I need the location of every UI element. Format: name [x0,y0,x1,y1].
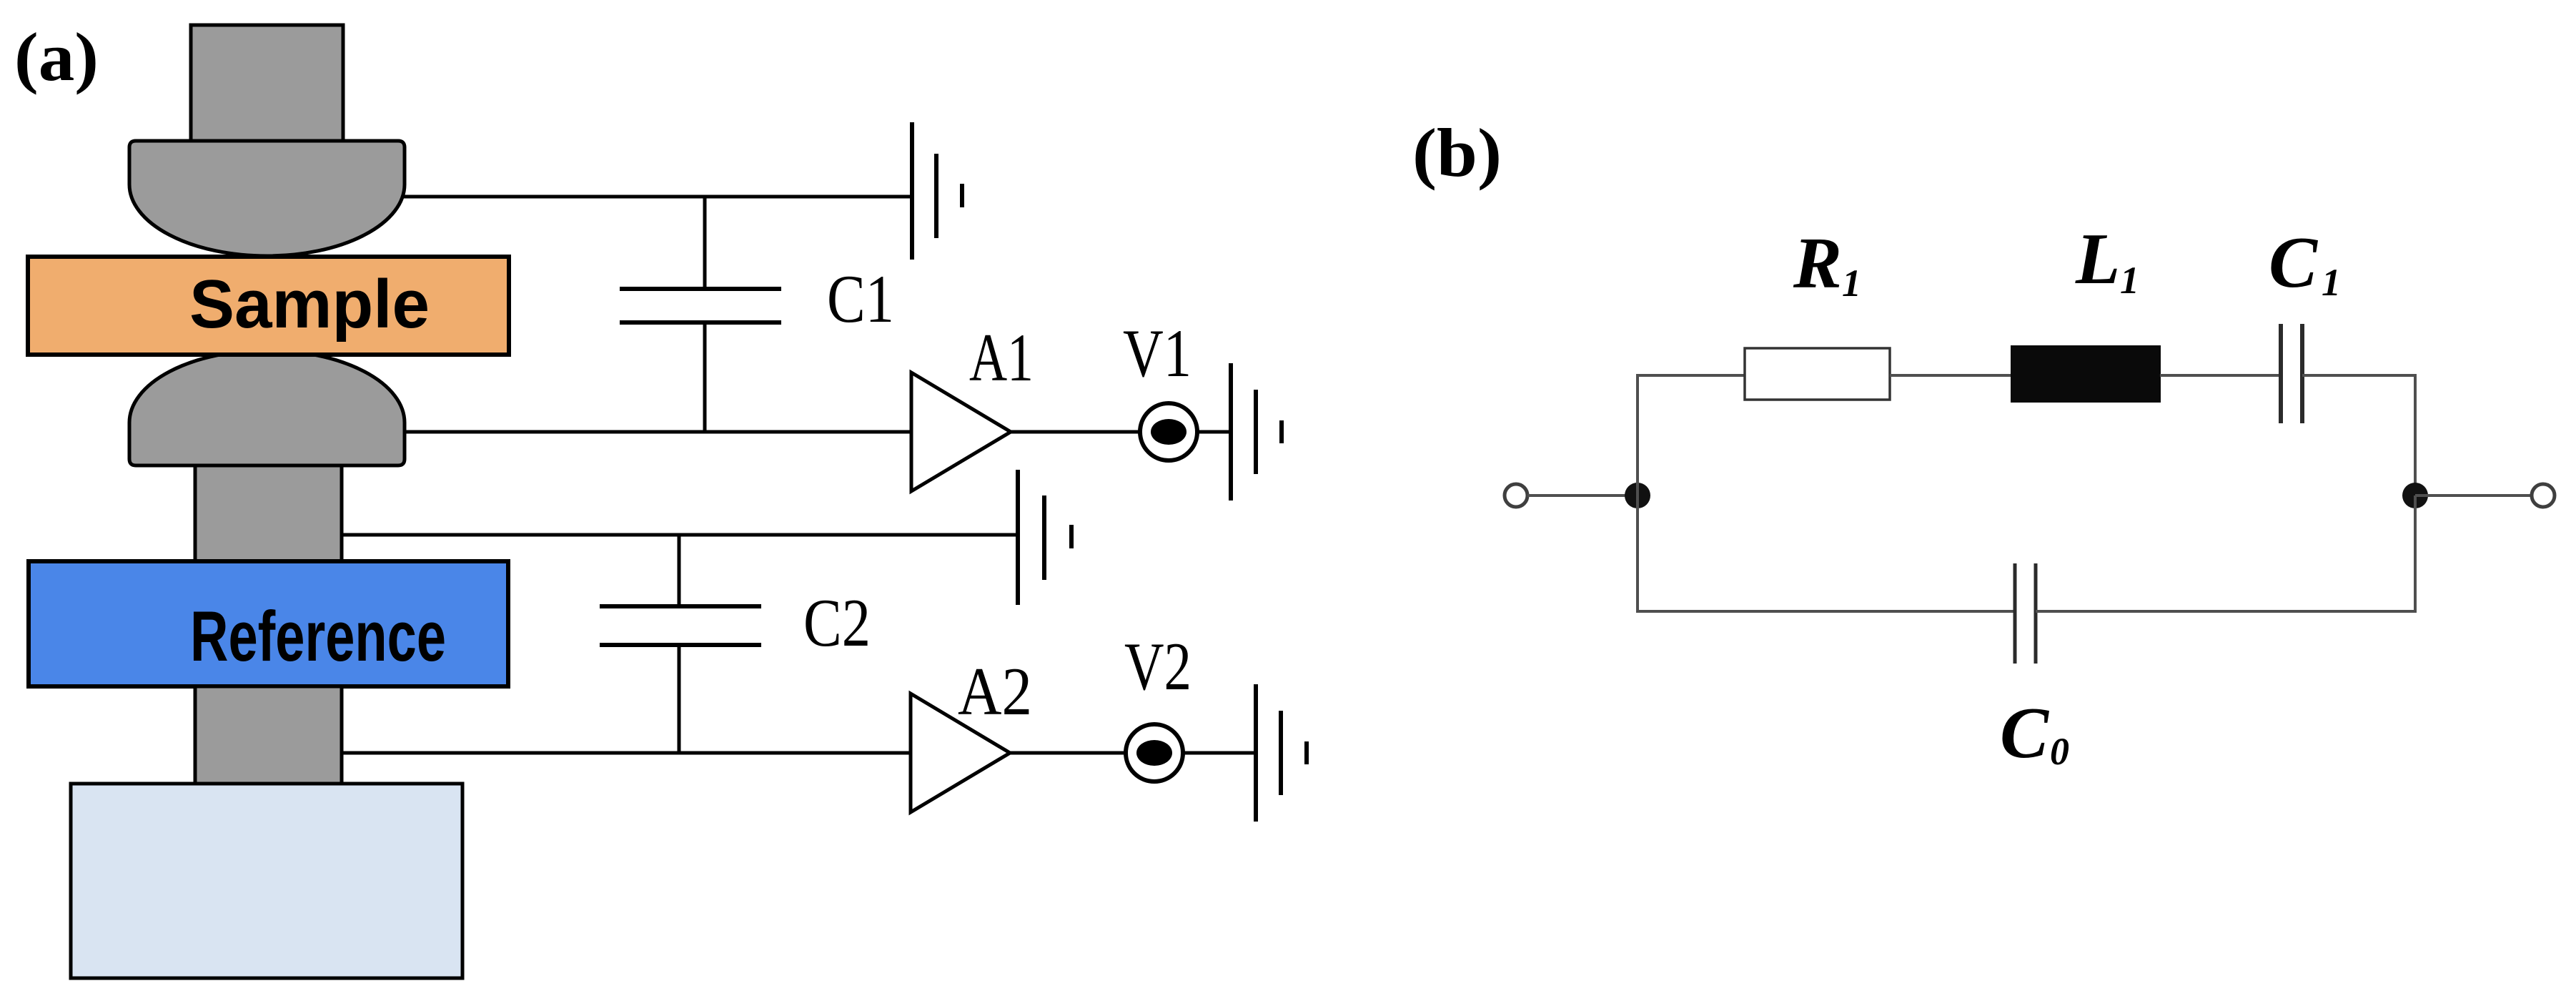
capacitor C2 [600,606,761,645]
label C2 [803,585,871,661]
wire junction down from upper wire to C1 top plate [703,197,707,287]
wire from lower electrode to amplifier A1 [395,430,911,434]
svg-text:1: 1 [1842,262,1861,305]
amplifier A1 [911,373,1011,491]
press lower anvil [129,350,405,465]
ground G1 [912,122,962,260]
svg-text:(b): (b) [1412,114,1502,191]
label A2 [958,654,1032,729]
terminal IN [1505,484,1527,507]
svg-text:Reference: Reference [190,596,446,676]
reference plate [29,561,508,686]
wire from V1 to ground G2 [1197,430,1231,434]
svg-text:1: 1 [2322,261,2341,304]
wire C1b to node N2 [2302,375,2415,495]
wire node N2 to OUT terminal [2415,494,2532,497]
wire bottom branch right [2036,495,2415,611]
wire from upper electrode to C1/ground [395,195,912,199]
base block [71,784,462,978]
amplifier A2 [911,694,1010,812]
svg-text:V2: V2 [1124,628,1192,704]
ground G4 [1256,684,1307,822]
wire from upper reference electrode to ground G3 [342,533,1018,537]
label A1 [969,320,1034,395]
wire L1 to C1b [2160,374,2281,377]
press upper stem [191,25,343,142]
inductor L1 [2011,346,2160,402]
label Sample [189,266,430,342]
wire from A1 output to voltmeter V1 [1011,430,1140,434]
label L1 [2075,219,2139,302]
ground G2 [1231,363,1282,501]
capacitor C1 (panel b) [2281,324,2302,423]
wire from V2 to ground G4 [1183,751,1256,755]
label C1 (panel b) [2269,222,2341,304]
svg-text:L: L [2075,219,2120,300]
capacitor C1 [620,289,781,322]
label R1 [1793,223,1861,305]
svg-text:R: R [1793,223,1842,304]
sample plate [28,257,509,355]
wire bottom branch left [1638,495,2015,611]
wire left branch vertical N1 [1638,375,1745,611]
svg-text:1: 1 [2120,259,2139,302]
svg-text:C: C [2000,693,2049,774]
svg-text:Sample: Sample [189,266,430,342]
svg-text:0: 0 [2050,730,2069,773]
label (b) [1412,114,1502,191]
label V2 [1124,628,1192,704]
svg-text:C: C [2269,222,2318,303]
press upper anvil [129,141,405,256]
wire from A2 output to voltmeter V2 [1010,751,1126,755]
node N1 [1625,483,1650,508]
wire junction down from G3 wire to C2 top plate [678,535,681,605]
voltmeter V1 [1140,403,1197,460]
voltmeter V2 [1126,724,1183,781]
label V1 [1123,315,1192,391]
wire from IN terminal to node N1 [1527,494,1638,497]
svg-text:(a): (a) [14,19,99,95]
ground G3 [1018,470,1071,605]
resistor R1 [1745,348,1890,400]
label (a) [14,19,99,95]
wire R1 to L1 [1890,374,2011,377]
svg-text:C2: C2 [803,585,871,661]
wire from C1 bottom plate to lower electrode wire [703,325,707,432]
node N2 [2402,483,2428,508]
svg-text:C1: C1 [827,261,894,337]
stem below reference [195,686,342,784]
label C1 [827,261,894,337]
stem between lower anvil and reference [195,465,342,561]
wire from C2 bottom plate to lower reference wire [678,647,681,753]
terminal OUT [2532,484,2555,507]
svg-text:V1: V1 [1123,315,1192,391]
label Reference [190,596,446,676]
svg-text:A1: A1 [969,320,1034,395]
label C0 [2000,693,2069,774]
wire from lower reference electrode to amplifier A2 [342,751,911,755]
svg-text:A2: A2 [958,654,1032,729]
capacitor C0 [2015,563,2036,664]
